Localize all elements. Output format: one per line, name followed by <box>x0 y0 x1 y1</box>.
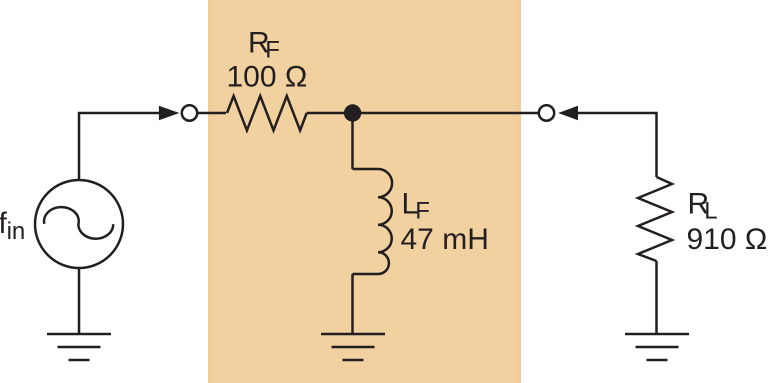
node junction dot <box>344 104 361 121</box>
wire: terminal to resistor <box>198 112 227 115</box>
resistor RL <box>638 177 672 261</box>
wire: RL to ground <box>655 261 658 334</box>
ground right <box>625 334 689 360</box>
resistor RF <box>227 96 307 130</box>
wire: source to ground <box>78 268 81 334</box>
svg-text:910 Ω: 910 Ω <box>687 223 768 256</box>
arrow into input terminal <box>159 106 180 121</box>
svg-text:in: in <box>7 218 26 245</box>
svg-text:47 mH: 47 mH <box>401 223 489 256</box>
svg-text:L: L <box>704 198 717 225</box>
sine wave inside source <box>44 207 113 239</box>
wire: node down to inductor <box>351 119 354 169</box>
source fin (AC source) <box>35 180 123 268</box>
wire: right top rail down to RL <box>578 113 657 177</box>
ground middle <box>321 334 385 360</box>
svg-text:F: F <box>415 198 430 225</box>
wire: node to output terminal <box>353 112 539 115</box>
arrow into output terminal <box>558 106 578 121</box>
wire: source top vertical <box>79 113 160 180</box>
node input terminal (open circle) <box>182 105 197 120</box>
shaded filter band <box>208 0 521 383</box>
wire: resistor to node <box>307 112 353 115</box>
node output terminal (open circle) <box>539 105 554 120</box>
inductor LF <box>353 169 393 274</box>
wire: inductor to ground <box>351 274 354 334</box>
svg-text:100 Ω: 100 Ω <box>227 61 308 94</box>
ground left <box>47 334 111 360</box>
